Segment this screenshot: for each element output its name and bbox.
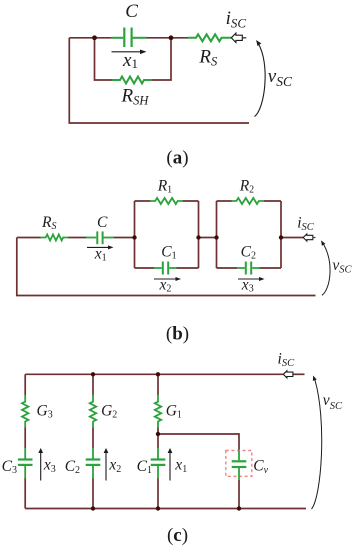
arrow x1 (c) [169,452,171,481]
svg-text:vSC: vSC [323,392,343,412]
node: (b) junction at box1 left [132,235,136,239]
arrow x3 (b) [238,278,261,280]
node: (b) junction at box1 right [196,235,200,239]
svg-text:C1: C1 [137,458,152,476]
node: (c) top rail junction at branch1 [156,372,160,376]
wire: C_v branch [158,434,239,509]
wire: (c) bottom rail [25,508,306,510]
wire: branch 3 vertical segments [24,374,26,508]
svg-text:G2: G2 [101,402,117,420]
svg-text:C1: C1 [161,244,176,262]
capacitor C3 (c) [18,448,33,479]
terminal arrow i_SC (c) [283,371,293,378]
wire: (c) top rail [25,373,283,375]
resistor G3 [22,395,28,428]
capacitor C1 (c) [151,448,166,479]
node: (c) bottom rail junction at branch2 [91,506,95,510]
svg-text:x1: x1 [94,246,107,264]
capacitor C [111,28,147,48]
node: (c) branch1 mid junction [156,432,160,436]
capacitor C_v [232,451,247,481]
svg-text:vSC: vSC [332,257,352,276]
wire: (a) shunt branch left side [95,38,114,80]
wire: (a) shunt branch right side [151,38,171,80]
resistor G1 [155,395,161,428]
wire: (a) outer loop left and bottom [69,38,249,123]
svg-text:R1: R1 [157,178,172,196]
svg-text:(b): (b) [166,324,189,345]
svg-text:iSC: iSC [226,8,247,31]
v_SC arc (c) [312,379,322,510]
arrow x1 (b) [87,246,110,248]
svg-text:G1: G1 [166,402,182,420]
svg-text:RSH: RSH [121,86,150,108]
wire: (a) top wire left segment [69,37,112,39]
svg-text:C2: C2 [241,244,256,262]
v_SC arc (b) [322,243,330,296]
wire: branch 2 vertical segments [92,374,94,508]
svg-text:C: C [97,214,108,231]
resistor R_SH [112,77,152,84]
wire: (b) input segment 2 [68,237,87,239]
svg-text:x1: x1 [122,50,138,71]
svg-text:RS: RS [198,47,218,69]
capacitor C_1 (b) [154,262,177,275]
v_SC arc (a) [255,43,266,117]
node: (b) junction at box2 right [279,235,283,239]
capacitor C (b) [86,231,114,244]
resistor R_2 [232,198,265,204]
svg-text:C: C [125,1,138,22]
resistor R_1 [150,198,183,204]
svg-text:iSC: iSC [297,215,315,233]
wire: (b) link between boxes [199,237,217,239]
svg-text:RS: RS [41,214,56,232]
arrow x2 (c) [105,452,107,481]
dashed box around C_v [226,451,252,477]
wire: box1 outline [135,201,199,268]
node: (a) left junction [92,35,97,40]
wire: (b) input segment 1 [17,237,41,239]
wire: box2 outline [217,201,282,268]
node: (c) top rail junction at branch2 [91,372,95,376]
node: (a) right junction [169,35,174,40]
svg-text:(c): (c) [167,525,188,546]
capacitor C2 (c) [86,448,101,479]
svg-text:C3: C3 [2,458,17,476]
svg-text:R2: R2 [239,178,254,196]
svg-text:G3: G3 [37,402,53,420]
arrow x1 state (a) [112,51,142,53]
terminal arrow i_SC (b) [303,234,313,241]
node: (b) junction at box2 left [214,235,218,239]
wire: (b) output wire [281,237,304,239]
resistor R_S (b) [40,235,68,241]
svg-text:Cv: Cv [253,458,268,476]
arrow x2 (b) [154,278,177,280]
wire: (c) top rail after terminal [293,373,305,375]
svg-text:C2: C2 [65,458,80,476]
resistor G2 [90,395,96,428]
wire: (a) top wire mid segment [146,37,189,39]
wire: branch 1 vertical segments [157,374,159,508]
node: (c) bottom rail junction at C_v branch [237,506,241,510]
svg-text:x1: x1 [174,456,187,475]
node: (c) bottom rail junction at branch1 [156,506,160,510]
svg-text:x3: x3 [43,456,56,475]
arrow x3 (c) [40,452,42,481]
wire: (b) outer loop left and bottom [17,238,316,296]
wire: (b) input segment 3 [113,237,135,239]
capacitor C_2 (b) [237,262,260,275]
svg-text:iSC: iSC [278,351,296,369]
svg-text:x2: x2 [108,456,121,475]
terminal arrow i_SC (a) [231,33,242,42]
svg-text:vSC: vSC [268,66,293,89]
resistor R_S (a) [188,34,231,41]
svg-text:(a): (a) [166,148,188,169]
